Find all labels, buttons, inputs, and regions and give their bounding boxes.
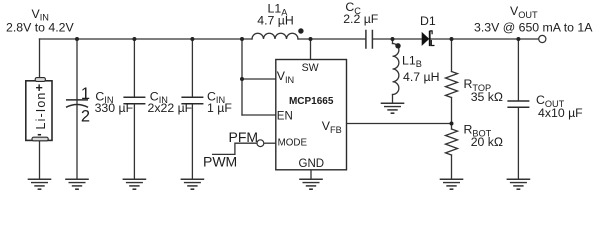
svg-text:20 kΩ: 20 kΩ (471, 135, 504, 149)
svg-text:GND: GND (299, 158, 325, 170)
svg-text:35 kΩ: 35 kΩ (471, 90, 504, 104)
svg-text:MODE: MODE (278, 137, 308, 148)
svg-text:2x22 µF: 2x22 µF (148, 101, 193, 115)
svg-text:330 µF: 330 µF (95, 101, 134, 115)
svg-text:Li-Ion: Li-Ion (34, 92, 48, 130)
svg-text:SW: SW (302, 62, 319, 74)
svg-text:D1: D1 (420, 14, 436, 28)
svg-text:MCP1665: MCP1665 (289, 96, 334, 107)
svg-text:1: 1 (81, 85, 90, 103)
svg-text:2: 2 (81, 108, 90, 126)
svg-text:4.7 µH: 4.7 µH (257, 14, 293, 28)
svg-text:PFM: PFM (229, 129, 259, 145)
svg-text:3.3V @ 650 mA to 1A: 3.3V @ 650 mA to 1A (474, 21, 593, 35)
svg-text:2.8V to 4.2V: 2.8V to 4.2V (6, 20, 74, 34)
svg-text:1 µF: 1 µF (207, 101, 232, 115)
svg-text:4x10 µF: 4x10 µF (538, 106, 583, 120)
svg-text:PWM: PWM (203, 154, 237, 170)
svg-text:4.7 µH: 4.7 µH (403, 70, 439, 84)
svg-text:2.2 µF: 2.2 µF (343, 12, 379, 26)
svg-text:EN: EN (277, 110, 293, 122)
